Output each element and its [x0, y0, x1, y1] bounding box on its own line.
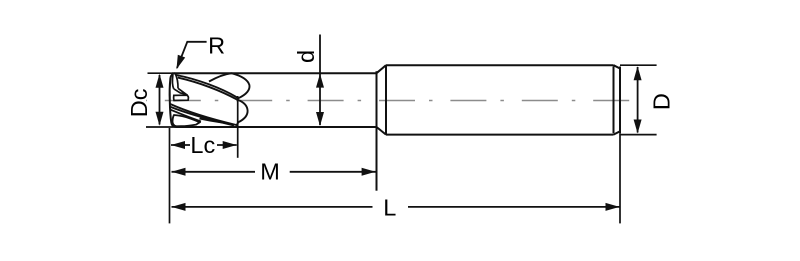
flute band lower curve b — [170, 107, 234, 126]
dimension D arrow — [637, 67, 639, 133]
wire: shank bottom edge — [386, 134, 614, 136]
dimension Lc line left segment — [171, 144, 190, 146]
dimension M line left segment — [172, 171, 256, 173]
centerline — [146, 100, 640, 102]
flute band lower curve c — [171, 110, 201, 122]
svg-text:d: d — [293, 50, 319, 63]
flute runout upper bulge — [232, 73, 250, 98]
wire: shank start vertical — [385, 65, 387, 134]
wire: shank chamfer bottom diagonal — [614, 131, 621, 134]
svg-text:L: L — [383, 195, 396, 221]
dimension Dc extension bottom — [146, 126, 176, 128]
flute band lower curve a — [170, 104, 236, 125]
wire: neck top edge — [172, 72, 377, 74]
svg-text:Lc: Lc — [190, 132, 215, 158]
dimension L line right segment — [408, 206, 620, 208]
wire: shank chamfer top diagonal — [614, 65, 621, 68]
dimension L line left segment — [172, 206, 373, 208]
flute band lower wedge fill — [199, 118, 236, 126]
wire: taper top diagonal — [377, 65, 387, 73]
end tooth gash line left — [172, 75, 173, 89]
end tooth band — [174, 95, 189, 100]
flute runout lower bulge — [236, 100, 248, 126]
dimension L left extension — [169, 128, 171, 223]
dimension L right extension — [619, 133, 621, 223]
svg-text:M: M — [260, 158, 280, 184]
wire: shank end face — [619, 67, 621, 134]
dimension D extension top — [620, 64, 657, 66]
svg-text:R: R — [208, 33, 225, 59]
bottom tooth lens — [173, 115, 200, 126]
flute band upper curve b — [178, 78, 237, 100]
dimension D extension bottom — [620, 134, 657, 136]
flute fin top-right rising curve — [209, 73, 232, 81]
wire: shank top edge — [386, 64, 614, 66]
wire: taper bottom diagonal — [377, 127, 387, 135]
svg-text:Dc: Dc — [126, 88, 152, 117]
dimension Lc line right segment — [217, 144, 237, 146]
end tooth beak — [174, 88, 188, 95]
wire: neck bottom edge — [176, 126, 377, 128]
dimension d extension vertical — [319, 35, 321, 126]
end tooth gash line right — [175, 74, 178, 89]
wire: taper vertical — [376, 71, 378, 191]
label R leader — [177, 42, 207, 68]
cutter head outline left edge — [170, 73, 176, 127]
dimension Dc arrow — [159, 75, 161, 125]
dimension M line right segment — [290, 171, 376, 173]
flute band upper curve a — [176, 75, 238, 98]
svg-text:D: D — [648, 93, 674, 110]
wire: shank chamfer vertical — [613, 67, 615, 134]
dimension Lc right extension — [237, 96, 239, 158]
dimension Dc extension top — [148, 72, 173, 74]
